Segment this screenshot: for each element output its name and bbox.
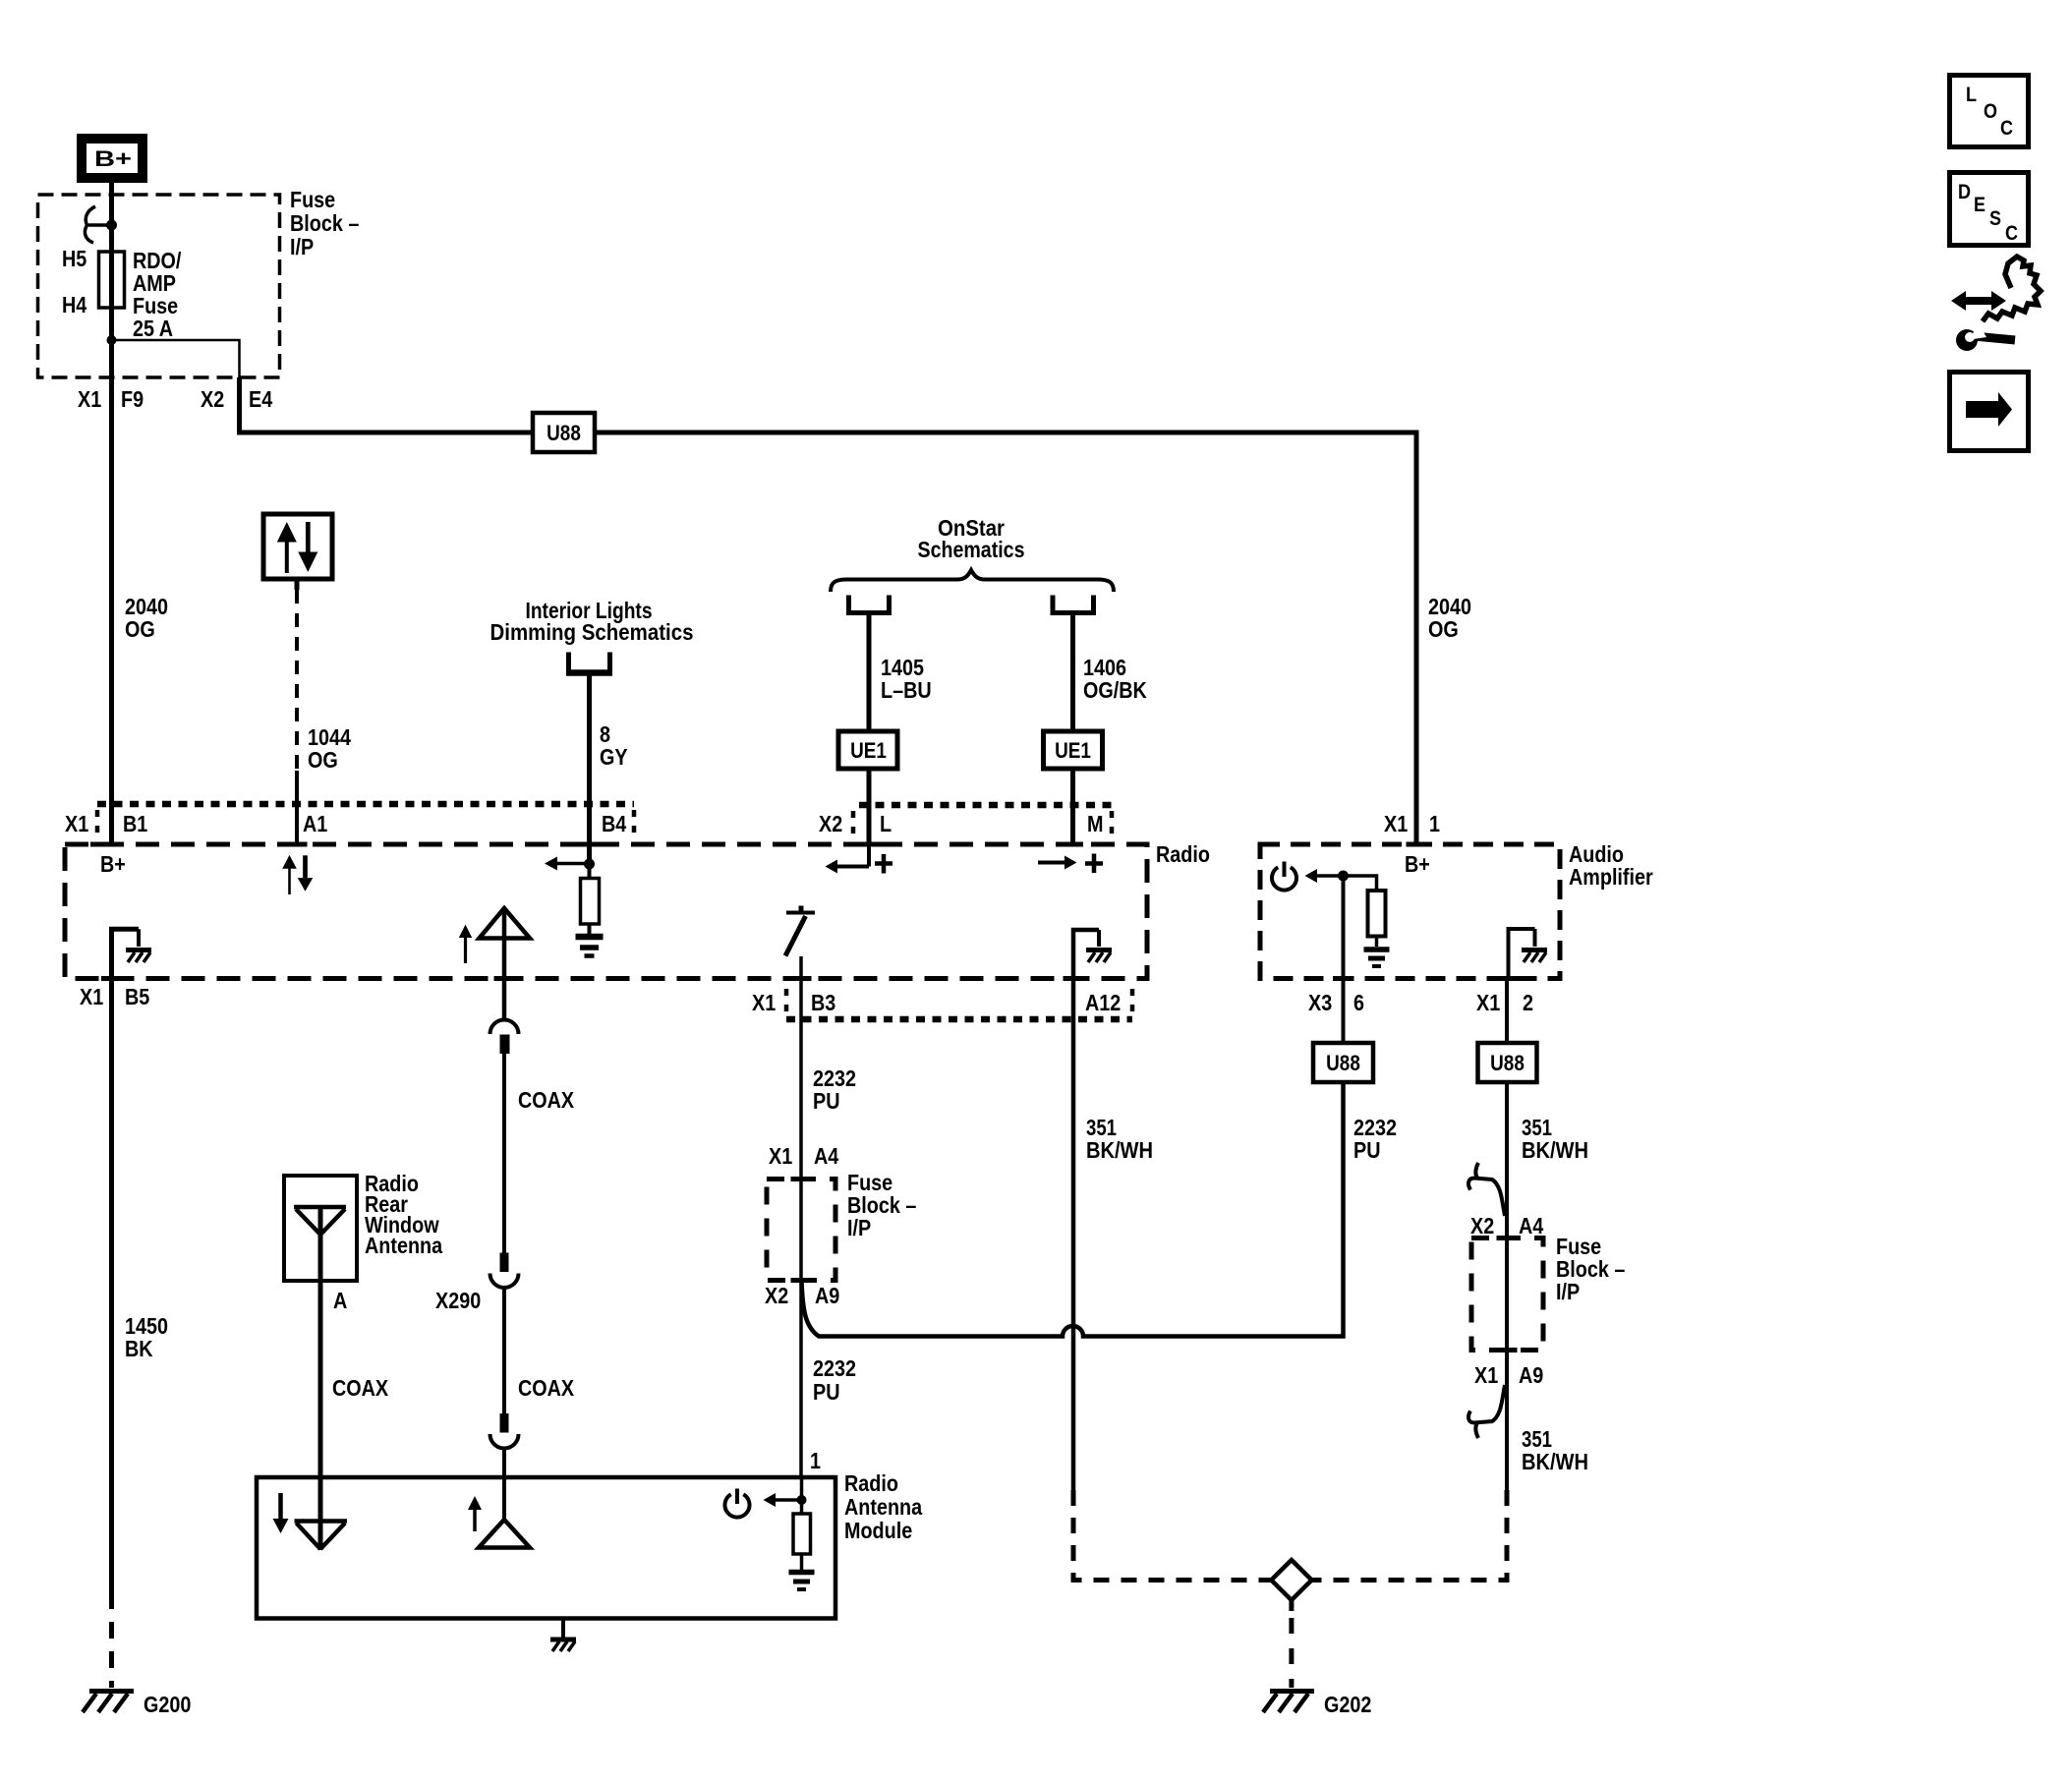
- module arrow at pin 1: [764, 1493, 803, 1507]
- wire label 2040 OG (left): [125, 594, 168, 642]
- svg-text:I/P: I/P: [290, 234, 314, 259]
- amp resistor: [1368, 891, 1386, 937]
- label Fuse Block - I/P (middle): [847, 1170, 917, 1240]
- tick at A4 entry (right): [1497, 1236, 1518, 1240]
- pin labels X1 A4: [769, 1143, 838, 1169]
- svg-text:B+: B+: [94, 146, 132, 171]
- coax connector X290: [490, 1253, 519, 1289]
- harness label UE1 (right): [1044, 731, 1103, 769]
- junction dot at fuse output: [107, 335, 117, 345]
- clip symbol lower (right fuse block): [1468, 1385, 1505, 1438]
- svg-text:BK/WH: BK/WH: [1086, 1137, 1153, 1163]
- svg-text:UE1: UE1: [1055, 738, 1091, 763]
- fuse block I/P dashed outline (top): [38, 195, 280, 377]
- wire 351 BK/WH to fuse block right: [1505, 1082, 1509, 1238]
- module antenna (up triangle, outline): [479, 1520, 530, 1548]
- tick at amp X1-2 exit: [1497, 976, 1518, 981]
- label Radio Antenna Module: [844, 1470, 922, 1543]
- label Fuse Block - I/P (right): [1556, 1234, 1626, 1304]
- wire X1-2 (351 BK/WH) upper: [1505, 978, 1509, 1044]
- coax connector (radio output): [490, 1020, 519, 1055]
- wire label 1450 BK: [125, 1313, 168, 1361]
- harness label U88 (X3-6 wire): [1313, 1043, 1373, 1082]
- tick at A9 exit: [791, 1278, 812, 1283]
- svg-text:S: S: [1989, 207, 2001, 230]
- module up arrow: [468, 1496, 482, 1531]
- splice stub: [1289, 1600, 1294, 1611]
- wire resistor to ground: [1375, 937, 1379, 948]
- svg-text:C: C: [2000, 117, 2013, 140]
- radio internal up/down arrows at A1: [282, 855, 313, 894]
- wire 1044 OG solid portion to A1: [295, 771, 299, 844]
- tick at B4 entry: [579, 842, 600, 847]
- svg-text:COAX: COAX: [518, 1087, 575, 1113]
- svg-text:O: O: [1984, 100, 1997, 123]
- svg-text:BK: BK: [125, 1336, 153, 1361]
- node B+ (battery positive symbol box): [82, 139, 143, 178]
- wire 351 dashed (left): [1073, 1490, 1271, 1581]
- connector divider B4 (dotted tick): [632, 810, 637, 838]
- wire 1406 to radio pin M: [1070, 769, 1075, 846]
- wire label 2232 PU (amp run): [1353, 1115, 1397, 1163]
- svg-text:F9: F9: [121, 386, 144, 412]
- wire label 351 BK/WH (left): [1086, 1115, 1153, 1163]
- svg-text:X1: X1: [65, 811, 88, 836]
- svg-text:X1: X1: [80, 984, 103, 1009]
- ground (IEC) below B4 resistor: [576, 937, 604, 956]
- svg-text:BK/WH: BK/WH: [1522, 1137, 1588, 1163]
- svg-text:OG: OG: [308, 747, 338, 773]
- brace (OnStar schematics): [831, 570, 1114, 592]
- svg-text:Fuse: Fuse: [290, 187, 335, 212]
- wire label 351 BK/WH (right upper): [1522, 1115, 1588, 1163]
- pin labels X2 A9: [765, 1283, 839, 1308]
- svg-text:B+: B+: [100, 851, 126, 877]
- svg-text:B+: B+: [1405, 851, 1430, 877]
- svg-text:Schematics: Schematics: [918, 537, 1025, 562]
- module case ground stem: [561, 1619, 565, 1639]
- module antenna (down triangle, outline): [295, 1522, 348, 1550]
- svg-text:25 A: 25 A: [133, 316, 173, 341]
- svg-text:A1: A1: [303, 811, 327, 836]
- module case ground symbol: [550, 1640, 576, 1651]
- wire 2232 splice from A9 to amplifier run (heavy): [802, 1082, 1344, 1337]
- left arrow at B4: [545, 857, 590, 871]
- wire label 2232 PU (upper): [813, 1065, 856, 1114]
- wire 1406 OG/BK upper: [1070, 613, 1075, 734]
- svg-text:2232: 2232: [813, 1355, 856, 1381]
- radio internal arrow + plus at L: [826, 846, 870, 874]
- wire label 1406 OG/BK: [1083, 655, 1147, 703]
- connector divider M (dotted tick): [1110, 811, 1115, 838]
- radio internal dimming input at B4: wire stub: [587, 844, 592, 864]
- svg-text:X290: X290: [435, 1288, 481, 1313]
- radio internal switch at B3: [785, 906, 815, 956]
- wire antenna lead A (COAX): [318, 1207, 323, 1550]
- svg-text:PU: PU: [1353, 1137, 1381, 1163]
- symbol box with up/down arrows (A1 source): [263, 514, 332, 590]
- wire 1405 L-BU upper: [867, 613, 872, 734]
- tick at A1 entry: [287, 842, 308, 847]
- DESC icon box: [1950, 173, 2029, 246]
- radio internal ground at A12: [1073, 930, 1112, 978]
- wire resistor to ground: [800, 1554, 804, 1570]
- audio amplifier dashed box: [1260, 844, 1560, 979]
- wire 351 dashed (right): [1312, 1490, 1507, 1581]
- wire label 2232 PU (lower): [813, 1355, 856, 1405]
- fuse block I/P dashed outline (right): [1471, 1238, 1543, 1351]
- harness label U88 (X1-2 wire): [1478, 1043, 1537, 1082]
- off-page connector bracket (1406 M wire): [1053, 596, 1094, 613]
- svg-text:H5: H5: [62, 246, 86, 271]
- junction dot at B4: [584, 859, 595, 870]
- svg-text:X3: X3: [1308, 990, 1332, 1015]
- amp power symbol: [1272, 862, 1296, 891]
- svg-text:X1: X1: [78, 386, 101, 412]
- svg-text:GY: GY: [600, 744, 628, 770]
- radio internal antenna symbol (coax out): [480, 908, 531, 1021]
- svg-text:U88: U88: [547, 421, 581, 445]
- svg-text:B4: B4: [602, 811, 626, 836]
- svg-text:Antenna: Antenna: [365, 1233, 442, 1258]
- svg-text:G202: G202: [1324, 1692, 1371, 1717]
- radio dashed box: [65, 844, 1147, 979]
- wire resistor to ground: [588, 924, 592, 934]
- forward arrow icon box: [1950, 373, 2029, 451]
- tick at antenna coax exit: [494, 976, 515, 981]
- svg-text:1: 1: [1429, 811, 1440, 836]
- wire pin 1 into module: [800, 1477, 804, 1514]
- wire coax into module: [502, 1447, 506, 1521]
- wire 351 BK/WH below fuse block: [1505, 1351, 1509, 1491]
- radio rear window antenna box: [284, 1176, 357, 1281]
- radio antenna module box: [257, 1477, 835, 1619]
- wire 1450 BK dashed: [109, 1622, 114, 1688]
- svg-text:A9: A9: [1519, 1362, 1543, 1388]
- junction dot amp: [1338, 871, 1349, 882]
- connector divider (dotted tick left): [784, 989, 789, 1014]
- wire 1450 BK solid: [109, 978, 114, 1609]
- svg-text:L: L: [880, 811, 892, 836]
- ground G202: [1263, 1692, 1314, 1713]
- wiring repair icon (arrow, outline, wrench): [1951, 257, 2041, 351]
- plus sign at L: [875, 854, 892, 874]
- pin labels X1 2: [1476, 990, 1533, 1015]
- clip symbol on B+ feed inside fuse block: [85, 206, 111, 243]
- up arrow beside antenna: [459, 925, 472, 963]
- radio internal arrow + plus at M: [1038, 856, 1077, 870]
- svg-text:Module: Module: [844, 1518, 912, 1543]
- svg-text:I/P: I/P: [847, 1215, 871, 1240]
- off-page connector bracket (1405 L wire): [849, 596, 890, 613]
- svg-text:B1: B1: [123, 811, 147, 836]
- connector divider X2 (dotted tick): [851, 811, 856, 838]
- svg-text:OG: OG: [1428, 616, 1459, 642]
- wire junction to resistor at B4: [588, 864, 592, 880]
- wire label 2040 OG (right): [1428, 594, 1471, 642]
- radio internal ground at B5: [112, 929, 152, 978]
- svg-text:COAX: COAX: [332, 1375, 389, 1401]
- svg-text:H4: H4: [62, 292, 86, 317]
- svg-text:COAX: COAX: [518, 1375, 575, 1401]
- tick at L entry: [859, 842, 880, 847]
- coax connector (module input): [490, 1413, 519, 1449]
- ground G200: [83, 1692, 134, 1713]
- label Fuse Block - I/P (top): [290, 187, 360, 259]
- svg-text:X2: X2: [765, 1283, 788, 1308]
- tick at A4 entry: [791, 1177, 812, 1181]
- connector divider X1 (dotted tick): [95, 810, 100, 838]
- pin labels X1 A9 (right): [1474, 1362, 1543, 1388]
- svg-text:UE1: UE1: [850, 738, 887, 763]
- tick at M entry: [1063, 842, 1083, 847]
- svg-text:A: A: [333, 1288, 347, 1313]
- amp arrow at X3-6: [1305, 869, 1344, 883]
- wire through right fuse block: [1505, 1238, 1509, 1351]
- wire COAX (X290 to module connector): [502, 1286, 506, 1413]
- value label RDO/AMP Fuse 25 A: [133, 248, 182, 341]
- ground (IEC) in module: [789, 1573, 815, 1590]
- svg-text:X1: X1: [1476, 990, 1500, 1015]
- wire 1405 to radio pin L: [867, 769, 872, 846]
- amp internal ground at X1-2: [1509, 929, 1548, 978]
- wire COAX (radio to X290): [502, 1054, 506, 1253]
- tick at B5 exit: [101, 976, 122, 981]
- junction at clip: [106, 220, 117, 231]
- label Audio Amplifier: [1569, 841, 1653, 890]
- tick at amp X3-6 exit: [1333, 976, 1353, 981]
- fuse block I/P dashed outline (middle): [767, 1180, 835, 1281]
- svg-text:X2: X2: [201, 386, 224, 412]
- svg-text:A4: A4: [814, 1143, 838, 1169]
- off-page connector bracket (interior lights): [566, 653, 612, 675]
- svg-text:X1: X1: [769, 1143, 792, 1169]
- wire through fuse block: [799, 1180, 803, 1281]
- connector divider (dotted tick right): [1130, 989, 1135, 1014]
- svg-text:Radio: Radio: [1156, 841, 1210, 867]
- svg-text:E: E: [1974, 194, 1986, 216]
- svg-text:X1: X1: [1474, 1362, 1498, 1388]
- tick at A9 exit (right): [1497, 1348, 1518, 1352]
- svg-text:G200: G200: [144, 1692, 191, 1717]
- ground (IEC) in amp: [1364, 950, 1390, 966]
- wire 2232 PU (B3 to fuse block): [799, 1019, 803, 1180]
- svg-text:X2: X2: [819, 811, 842, 836]
- wire B+ feed vertical (X1 F9 / B1, circuit 2040 OG): [109, 181, 114, 844]
- svg-text:X1: X1: [1384, 811, 1408, 836]
- svg-text:OG: OG: [125, 616, 155, 642]
- label OnStar Schematics: [918, 515, 1025, 562]
- svg-text:PU: PU: [813, 1088, 840, 1114]
- svg-text:U88: U88: [1326, 1051, 1360, 1075]
- svg-text:X2: X2: [1470, 1213, 1494, 1238]
- wire label 351 BK/WH (right lower): [1522, 1426, 1588, 1474]
- radio X1 connector dotted row (top left): [97, 801, 634, 808]
- radio X2 connector dotted row (top right): [859, 802, 1112, 809]
- svg-text:L–BU: L–BU: [881, 677, 932, 703]
- svg-text:I/P: I/P: [1556, 1279, 1580, 1304]
- wire branch to X2 E4 (thin, inside fuse block): [112, 340, 240, 377]
- splice diamond S-point: [1271, 1560, 1311, 1600]
- svg-text:A12: A12: [1085, 990, 1121, 1015]
- radio bottom connector dotted row: [786, 1016, 1132, 1023]
- tick at amp B+ entry: [1407, 842, 1427, 847]
- svg-text:Amplifier: Amplifier: [1569, 864, 1653, 890]
- svg-text:Block –: Block –: [290, 210, 360, 236]
- module resistor: [793, 1514, 811, 1554]
- svg-text:C: C: [2005, 222, 2018, 245]
- wire 2232 PU (A9 to module pin 1): [799, 1281, 803, 1478]
- svg-text:2: 2: [1523, 990, 1533, 1015]
- svg-text:1: 1: [810, 1448, 821, 1473]
- pin labels X3 6: [1308, 990, 1364, 1015]
- wire 1044 OG dashed portion: [295, 590, 299, 771]
- pin labels X2 A4 (right): [1470, 1213, 1543, 1238]
- svg-text:BK/WH: BK/WH: [1522, 1449, 1588, 1474]
- tick at A12 exit: [1064, 976, 1084, 981]
- LOC icon box: [1950, 76, 2029, 147]
- svg-text:6: 6: [1353, 990, 1364, 1015]
- label Interior Lights Dimming Schematics: [490, 598, 694, 645]
- harness label U88 (top run): [533, 413, 595, 452]
- svg-text:PU: PU: [813, 1379, 840, 1405]
- svg-text:A9: A9: [815, 1283, 839, 1308]
- svg-text:X1: X1: [752, 990, 776, 1015]
- junction dot pin1: [797, 1495, 807, 1505]
- antenna symbol inside: [294, 1207, 346, 1235]
- plus sign at M: [1085, 854, 1103, 874]
- pin label X1 B5 (radio bottom left): [80, 984, 149, 1009]
- tick at B1 entry: [90, 842, 110, 847]
- svg-text:E4: E4: [249, 386, 272, 412]
- wire label 8 GY: [600, 721, 628, 770]
- resistor inside radio at B4: [581, 879, 600, 925]
- pin labels X1 1 (amp top): [1384, 811, 1440, 836]
- svg-text:M: M: [1087, 811, 1104, 836]
- wire dashed to G202: [1289, 1618, 1294, 1688]
- svg-text:Antenna: Antenna: [844, 1494, 922, 1520]
- svg-text:Radio: Radio: [844, 1470, 898, 1496]
- svg-text:B5: B5: [125, 984, 149, 1009]
- svg-text:Dimming Schematics: Dimming Schematics: [490, 619, 694, 645]
- wire label 1044 OG: [308, 724, 351, 773]
- pin labels X1 F9 X2 E4: [78, 386, 272, 412]
- svg-text:D: D: [1958, 181, 1971, 203]
- wire E4 to audio amplifier (long U88 run, 2040 OG): [240, 377, 1417, 844]
- wire B3 stub through radio edge: [799, 956, 803, 1019]
- svg-text:B3: B3: [811, 990, 835, 1015]
- tick at B3 exit: [791, 976, 812, 981]
- clip symbol upper (right fuse block): [1468, 1163, 1505, 1216]
- wire label 1405 L-BU: [881, 655, 932, 703]
- wire junction to resistor: [1344, 876, 1377, 891]
- svg-text:OG/BK: OG/BK: [1083, 677, 1147, 703]
- module down arrow: [273, 1493, 289, 1533]
- wire X3-6 (2232 PU): [1342, 876, 1346, 1044]
- svg-text:U88: U88: [1490, 1051, 1525, 1075]
- svg-text:A4: A4: [1519, 1213, 1543, 1238]
- fuse RDO/AMP 25A (H5/H4): [99, 252, 125, 308]
- wire 8 GY to B4: [587, 673, 592, 865]
- harness label UE1 (left): [838, 731, 897, 769]
- wire 351 BK/WH from A12: [1071, 978, 1076, 1490]
- svg-text:L: L: [1966, 84, 1977, 106]
- label Radio Rear Window Antenna: [365, 1171, 442, 1258]
- module power symbol: [724, 1489, 749, 1518]
